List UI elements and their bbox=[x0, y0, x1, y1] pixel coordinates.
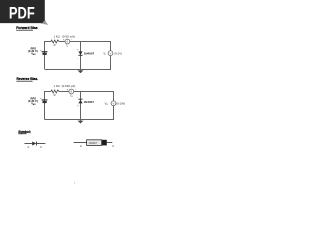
wire right lower segment c2 bbox=[45, 106, 114, 120]
voltmeter circuit 1 bbox=[108, 51, 113, 56]
diode schematic symbol (bottom left) bbox=[25, 142, 46, 150]
label RPS circuit 1 bbox=[28, 46, 38, 56]
diode D2 1N4007 circuit 2 (reversed) bbox=[78, 99, 82, 103]
svg-text:R: R bbox=[54, 93, 56, 97]
svg-text:Reverse Bias.: Reverse Bias. bbox=[17, 77, 39, 81]
PDF badge tail bbox=[41, 20, 49, 26]
svg-text:A: A bbox=[66, 40, 68, 44]
svg-text:1N4007: 1N4007 bbox=[84, 100, 95, 104]
svg-text:Symbol:: Symbol: bbox=[18, 130, 31, 134]
svg-text:V: V bbox=[113, 101, 115, 105]
wire top right segment bbox=[70, 42, 111, 51]
svg-text:Forward Bias: Forward Bias bbox=[16, 26, 38, 30]
svg-text:(0-1V): (0-1V) bbox=[115, 51, 123, 55]
diode physical package (bottom right) bbox=[74, 140, 115, 148]
cathode band bbox=[102, 140, 107, 146]
PDF badge bbox=[0, 0, 45, 23]
svg-text:(0-500 μA): (0-500 μA) bbox=[62, 84, 76, 88]
diode D1 1N4007 circuit 1 bbox=[78, 51, 82, 55]
wire top middle segment c2 bbox=[60, 91, 69, 93]
svg-text:A: A bbox=[27, 145, 29, 149]
svg-text:-: - bbox=[77, 96, 78, 99]
svg-text:1N4007: 1N4007 bbox=[89, 142, 98, 145]
resistor R circuit 2 bbox=[50, 90, 60, 93]
voltmeter circuit 2 bbox=[111, 101, 116, 106]
svg-text:V: V bbox=[110, 51, 112, 55]
cathode lead wire bbox=[37, 143, 46, 145]
battery RPS circuit 2 bbox=[40, 97, 47, 103]
ground circuit 1 bbox=[78, 70, 84, 74]
anode lead wire bbox=[25, 143, 33, 145]
wire top left segment bbox=[45, 42, 51, 70]
label RPS circuit 2 bbox=[28, 97, 38, 107]
package body bbox=[87, 140, 102, 146]
svg-text:A: A bbox=[80, 144, 82, 148]
svg-text:-: - bbox=[75, 87, 76, 91]
anode lead wire pkg bbox=[74, 142, 87, 144]
ammeter circuit 2 bbox=[69, 89, 74, 94]
svg-text:(0-50 mA): (0-50 mA) bbox=[62, 34, 75, 38]
diode triangle bbox=[32, 142, 36, 146]
wire right lower segment bbox=[45, 56, 111, 70]
svg-text:A: A bbox=[70, 90, 72, 94]
wire top right segment c2 bbox=[74, 92, 114, 102]
diode branch wire circuit 1 bbox=[80, 42, 82, 70]
diode branch wire circuit 2 bbox=[80, 92, 82, 120]
page background bbox=[0, 0, 149, 198]
cathode lead wire pkg bbox=[107, 142, 113, 144]
svg-text:1 KΩ: 1 KΩ bbox=[54, 34, 60, 38]
resistor R circuit 1 bbox=[50, 40, 60, 43]
wire top left segment c2 bbox=[45, 92, 51, 120]
svg-text:PDF: PDF bbox=[9, 5, 35, 23]
heading Reverse Bias bbox=[17, 77, 39, 81]
heading Symbol bbox=[18, 130, 31, 134]
diode cathode bar bbox=[35, 142, 37, 146]
ground circuit 2 bbox=[78, 120, 84, 124]
heading Forward Bias bbox=[16, 26, 38, 30]
svg-text:(0-10V): (0-10V) bbox=[116, 101, 125, 105]
svg-text:1N4007: 1N4007 bbox=[84, 52, 95, 56]
svg-text:-: - bbox=[77, 56, 78, 60]
svg-text:K: K bbox=[40, 145, 42, 149]
wire loop circuit 2 bbox=[45, 92, 114, 120]
wire top middle segment bbox=[60, 41, 65, 43]
wire loop circuit 1 bbox=[45, 42, 111, 70]
battery RPS circuit 1 bbox=[40, 49, 47, 55]
svg-text:R: R bbox=[54, 43, 56, 47]
svg-text:K: K bbox=[113, 144, 115, 148]
svg-text:1 KΩ: 1 KΩ bbox=[54, 84, 60, 88]
ammeter circuit 1 bbox=[65, 39, 70, 44]
